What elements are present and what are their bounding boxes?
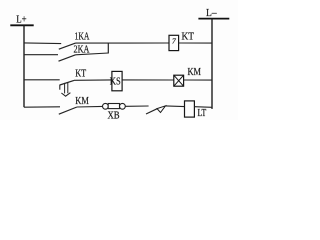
wire row1 to right bus — [179, 42, 212, 44]
wire row1 left — [24, 42, 61, 45]
node L+ — [10, 13, 33, 25]
wire row4 mid2 — [125, 105, 148, 107]
wire row3 to right bus — [184, 79, 212, 81]
brake coil KM — [174, 67, 201, 86]
wire row2 left — [24, 54, 58, 56]
svg-text:LT: LT — [198, 108, 207, 119]
svg-text:KT: KT — [75, 69, 86, 80]
link XB — [103, 103, 126, 121]
wire row4 left — [24, 106, 60, 108]
svg-text:L+: L+ — [16, 13, 26, 25]
wire row3 left — [24, 79, 60, 81]
switch with arrow — [146, 106, 166, 114]
contact KM — [59, 96, 89, 114]
svg-text:KS: KS — [110, 77, 121, 88]
svg-text:KM: KM — [75, 96, 89, 107]
contact 2KA — [59, 45, 91, 62]
wire left bus — [23, 25, 25, 107]
wire row3 mid2 — [122, 79, 174, 81]
node L- — [198, 7, 229, 19]
contact 1KA — [59, 32, 90, 50]
relay KS — [110, 71, 122, 90]
wire row3 mid — [74, 79, 112, 81]
svg-text:KM: KM — [188, 67, 202, 78]
wire row2 right — [76, 53, 109, 55]
svg-text:7: 7 — [172, 36, 176, 45]
wire row2 riser to row1 — [107, 43, 109, 54]
svg-text:L–: L– — [206, 7, 217, 19]
svg-text:KT: KT — [182, 32, 195, 43]
wire row4 mid — [77, 105, 103, 108]
svg-text:1KA: 1KA — [75, 32, 90, 43]
wire right bus — [211, 19, 213, 109]
wire row4 mid3 — [166, 105, 185, 108]
contact KT delayed — [60, 69, 86, 97]
relay coil KT — [169, 32, 194, 51]
wire row1 right — [76, 42, 170, 44]
svg-text:XB: XB — [108, 111, 120, 121]
brake LT — [185, 101, 207, 119]
wire row4 to right bus — [194, 106, 212, 109]
